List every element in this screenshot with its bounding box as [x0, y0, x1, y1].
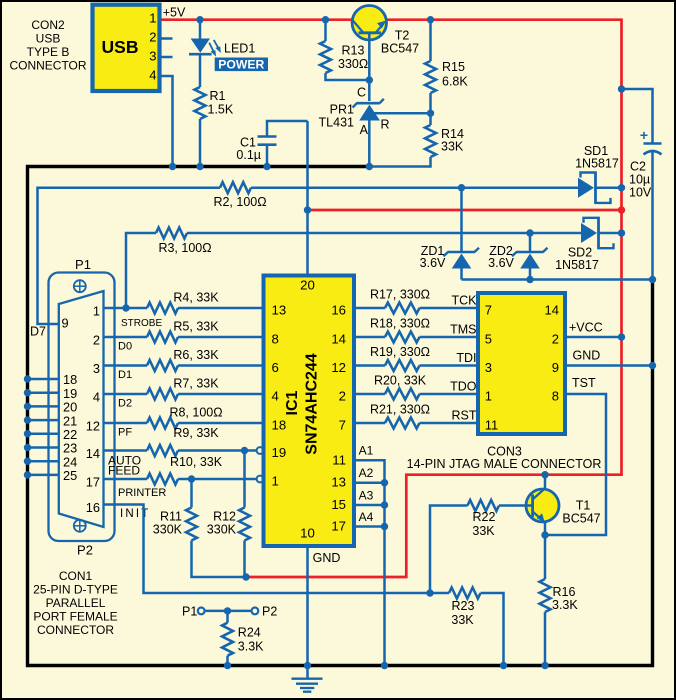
wire GND (CON3 pin9 to ground bus): [565, 364, 653, 367]
wire STROBE line (connector to resistor): [104, 307, 148, 310]
wire PF line (connector to resistor): [104, 422, 148, 425]
label R3 100Ω: [158, 241, 211, 255]
label INIT: [120, 508, 151, 520]
pin 14 number: [86, 446, 100, 461]
pin 18 number: [63, 372, 77, 387]
svg-text:STROBE: STROBE: [121, 318, 162, 329]
IC1 pin 13 number: [331, 475, 346, 490]
wire AUTO FEED line (resistor to IC1 pin 19): [178, 449, 257, 452]
svg-text:C: C: [357, 86, 366, 100]
svg-text:R21, 330Ω: R21, 330Ω: [370, 403, 430, 417]
wire VCC rail to C2: [622, 89, 653, 144]
svg-text:D2: D2: [118, 398, 132, 410]
CON3 pin 14 number: [545, 302, 559, 317]
wire PRINTER to R11: [190, 479, 193, 508]
svg-text:3: 3: [149, 48, 156, 63]
label D2: [118, 398, 132, 410]
label P1 (pad): [182, 605, 197, 619]
svg-text:3: 3: [485, 360, 492, 375]
svg-text:BC547: BC547: [381, 42, 419, 56]
wire node A2 (IC1 pin 13 to bus): [354, 481, 385, 484]
label SD1 1N5817: [575, 144, 619, 171]
svg-text:D1: D1: [118, 369, 132, 381]
junction SD2 cathode on VCC rail: [618, 229, 625, 236]
label R8, 100Ω: [169, 406, 222, 420]
label P1: [75, 257, 91, 272]
resistor R23: [449, 588, 481, 599]
svg-text:CONNECTOR: CONNECTOR: [9, 59, 86, 73]
wire R12 to pull-up rail: [243, 541, 246, 578]
svg-text:CON1: CON1: [59, 569, 93, 583]
label D1: [118, 369, 132, 381]
ground bus (black rail: top, left, bottom, right): [28, 167, 653, 666]
wire R21 to CON3 (RST): [420, 422, 479, 425]
svg-text:33K: 33K: [472, 524, 495, 538]
svg-text:R22: R22: [473, 510, 496, 524]
resistor R20: [385, 389, 420, 400]
label 14-PIN JTAG MALE CONNECTOR: [407, 457, 602, 471]
resistor R21: [385, 418, 420, 429]
resistor R22: [468, 500, 500, 511]
label P2 (pad): [262, 605, 277, 619]
wire R15 to junction: [429, 93, 432, 113]
svg-text:A1: A1: [359, 444, 374, 458]
label R19, 330Ω: [370, 345, 430, 359]
junction ZD2 ground: [526, 276, 533, 283]
junction R11/R12/VCC: [242, 573, 249, 580]
wire VCC mid rail to IC1 pin 20 node: [308, 209, 622, 212]
wire P1 pin 19 stub to ground: [28, 391, 59, 394]
svg-text:R18, 330Ω: R18, 330Ω: [370, 317, 430, 331]
svg-text:4: 4: [272, 389, 279, 404]
connector P1 inner D shell: [59, 291, 104, 527]
svg-text:6.8K: 6.8K: [442, 75, 468, 89]
resistor R19: [385, 360, 420, 371]
resistor R6: [147, 360, 178, 371]
svg-text:R: R: [381, 118, 390, 132]
LED LED1 symbol: [189, 39, 221, 57]
svg-text:R5, 33K: R5, 33K: [173, 320, 219, 334]
svg-text:13: 13: [272, 303, 287, 318]
wire T2 base down: [368, 33, 371, 101]
label CON2 USB TYPE B CONNECTOR: [9, 18, 86, 73]
junction R15/R14/ref: [427, 110, 434, 117]
wire R22 to INIT node: [430, 506, 468, 594]
shunt regulator PR1 TL431 symbol: [353, 99, 384, 121]
svg-text:POWER: POWER: [218, 58, 264, 72]
svg-text:3.3K: 3.3K: [552, 598, 578, 612]
pin 16 number: [86, 500, 100, 515]
wire PR1 ref to R15/R14 junction: [374, 112, 431, 115]
svg-text:R23: R23: [452, 599, 475, 613]
label TCK: [452, 294, 478, 308]
svg-text:C2: C2: [630, 160, 646, 174]
svg-text:R12: R12: [213, 510, 236, 524]
svg-text:FEED: FEED: [108, 464, 140, 478]
svg-text:10V: 10V: [629, 186, 652, 200]
wire C2 to ground: [651, 153, 654, 281]
pin 2 number: [93, 333, 100, 348]
svg-text:R17, 330Ω: R17, 330Ω: [370, 288, 430, 302]
label R5, 33K: [173, 320, 219, 334]
junction R3 tap on STROBE: [122, 304, 129, 311]
svg-text:1.5K: 1.5K: [208, 103, 234, 117]
svg-text:14: 14: [331, 332, 346, 347]
label STROBE: [121, 318, 162, 329]
label D0: [118, 341, 132, 353]
svg-text:2: 2: [93, 333, 100, 348]
USB connector CON2 box: [93, 5, 160, 91]
svg-text:USB: USB: [36, 32, 61, 46]
IC1 pin 14 number: [331, 332, 346, 347]
label R7, 33K: [173, 377, 219, 391]
svg-text:8: 8: [552, 388, 559, 403]
wire PR1 anode to ground: [368, 121, 371, 167]
junction R11 tap on PRINTER: [188, 475, 195, 482]
USB pin 1 number: [149, 11, 156, 26]
svg-text:6: 6: [272, 360, 279, 375]
svg-text:2: 2: [339, 389, 346, 404]
wire D0 line (connector to resistor): [104, 336, 148, 339]
resistor R10: [147, 474, 178, 485]
connector P1/P2 outer shell: [49, 273, 115, 542]
wire C1 top to VCC vertical: [267, 121, 308, 137]
pin 22 number: [63, 427, 77, 442]
label R10, 33K: [170, 455, 223, 469]
junction VCC vertical and red rail: [304, 206, 311, 213]
IC1 pin 19 number: [272, 445, 287, 460]
svg-text:+5V: +5V: [163, 6, 186, 20]
junction pin 24 ground: [24, 458, 31, 465]
svg-text:2: 2: [552, 331, 559, 346]
zener diode ZD1: [444, 188, 480, 280]
node P1 pad: [198, 608, 205, 615]
wire T1 collector to VCC: [544, 475, 547, 489]
svg-text:16: 16: [86, 500, 100, 515]
label A1: [359, 444, 374, 458]
svg-text:P1: P1: [75, 257, 91, 272]
pin 21 number: [63, 413, 77, 428]
wire AUTO FEED to R12: [243, 451, 246, 508]
IC1 pin 2 number: [339, 389, 346, 404]
svg-text:4: 4: [149, 68, 156, 83]
CON3 pin 2 number: [552, 331, 559, 346]
svg-text:R10, 33K: R10, 33K: [170, 455, 223, 469]
resistor R3: [156, 228, 187, 239]
IC1 pin 13 number: [272, 303, 287, 318]
pin 17 number: [86, 475, 100, 490]
svg-text:PARALLEL: PARALLEL: [46, 596, 106, 610]
wire D0 line (resistor to IC1): [178, 336, 264, 339]
junction R1 ground: [196, 163, 203, 170]
resistor R12: [239, 508, 250, 541]
IC1 pin 6 number: [272, 360, 279, 375]
junction pin 18 ground: [24, 375, 31, 382]
label R23 33K: [451, 599, 474, 627]
label +VCC: [569, 321, 603, 335]
resistor R16: [540, 579, 551, 612]
resistor R4: [147, 303, 178, 314]
IC1 pin 1 number: [272, 474, 279, 489]
svg-text:3: 3: [93, 361, 100, 376]
wire P1 pin 24 stub to ground: [28, 460, 59, 463]
IC1 pin 19 inverting bubble: [257, 447, 264, 454]
junction SD1 cathode on VCC rail: [618, 184, 625, 191]
junction USB pin4 ground: [169, 163, 176, 170]
svg-text:R6, 33K: R6, 33K: [173, 348, 219, 362]
label R1 1.5K: [208, 89, 234, 117]
svg-text:33K: 33K: [441, 140, 464, 154]
junction R16 ground: [541, 662, 548, 669]
svg-text:14-PIN JTAG MALE CONNECTOR: 14-PIN JTAG MALE CONNECTOR: [407, 457, 602, 471]
svg-text:T2: T2: [395, 29, 410, 43]
pin 20 number: [63, 400, 77, 415]
resistor R9: [147, 445, 178, 456]
label R22 33K: [472, 510, 495, 538]
wire INIT from P1 pin 16 down and right: [104, 505, 450, 594]
svg-text:CON2: CON2: [31, 18, 65, 32]
wire R13 to T2 base: [326, 73, 370, 80]
label R17, 330Ω: [370, 288, 430, 302]
svg-text:SN74AHC244: SN74AHC244: [304, 353, 321, 454]
svg-text:GND: GND: [313, 551, 341, 565]
svg-text:1: 1: [485, 388, 492, 403]
junction PR1 anode / ground / R14: [366, 163, 373, 170]
node P2 pad: [252, 608, 259, 615]
svg-text:18: 18: [272, 418, 287, 433]
svg-text:5: 5: [485, 331, 492, 346]
zener diode ZD2: [512, 233, 548, 280]
wire IC1 to R18: [354, 336, 385, 339]
junction +VCC on rail: [618, 333, 625, 340]
label T2 BC547: [381, 29, 419, 56]
svg-text:1: 1: [272, 474, 279, 489]
svg-text:14: 14: [545, 302, 559, 317]
junction R13 tap on +5V rail: [322, 16, 329, 23]
CON3 pin 5 number: [485, 331, 492, 346]
wire IC1 to R20: [354, 393, 385, 396]
wire VCC rail from T2 emitter to right, down right side, to bottom left: [246, 20, 622, 577]
label R9, 33K: [173, 426, 219, 440]
IC1 pin 12 number: [331, 360, 346, 375]
svg-text:4: 4: [93, 390, 100, 405]
IC1 pin 20 number: [300, 278, 315, 293]
label R11 330K: [153, 510, 183, 537]
label TDI: [456, 351, 476, 365]
label TDO: [450, 380, 477, 394]
svg-text:TL431: TL431: [319, 116, 354, 130]
svg-text:TDI: TDI: [456, 351, 476, 365]
wire IC1 to R21: [354, 422, 385, 425]
label TST: [572, 376, 596, 390]
svg-text:D7: D7: [30, 325, 46, 339]
label AUTO FEED: [108, 454, 141, 478]
svg-text:R24: R24: [238, 626, 261, 640]
wire junction to R14: [429, 113, 432, 125]
USB pin 2 number: [149, 30, 156, 45]
svg-text:13: 13: [331, 475, 346, 490]
svg-text:R8, 100Ω: R8, 100Ω: [169, 406, 222, 420]
resistor R1: [195, 87, 206, 119]
label R24 3.3K: [238, 626, 264, 654]
junction C2 tap on VCC rail: [618, 85, 625, 92]
wire R3 from STROBE line up: [126, 233, 156, 308]
wire P1 pin 21 stub to ground: [28, 419, 59, 422]
pin 24 number: [63, 454, 77, 469]
wire R23 to ground: [481, 593, 504, 666]
wire zener ground line: [462, 278, 653, 281]
svg-text:PORT FEMALE: PORT FEMALE: [33, 610, 117, 624]
wire IC1 to R19: [354, 364, 385, 367]
wire +5V to R13: [324, 20, 327, 41]
op-amp buffer IC1 SN74AHC244 box: [264, 276, 355, 547]
wire node A3 (IC1 pin 15 to bus): [354, 504, 385, 507]
IC1 pin 10 number: [300, 526, 315, 541]
junction A3 bus: [381, 501, 388, 508]
svg-text:IC1: IC1: [284, 390, 301, 415]
wire C1 bottom to ground: [266, 145, 269, 167]
schottky diode SD1: [578, 172, 622, 204]
pin 12 number: [86, 419, 100, 434]
svg-text:33K: 33K: [451, 613, 474, 627]
wire D1 line (resistor to IC1): [178, 364, 264, 367]
svg-text:R9, 33K: R9, 33K: [173, 426, 219, 440]
label R6, 33K: [173, 348, 219, 362]
svg-text:R2, 100Ω: R2, 100Ω: [213, 195, 266, 209]
svg-text:17: 17: [331, 519, 346, 534]
wire T1 emitter to TST node: [544, 522, 547, 536]
junction IC1 pin 10 ground: [304, 662, 311, 669]
junction T2 base / R13 / PR1: [366, 76, 373, 83]
svg-text:TDO: TDO: [450, 380, 477, 394]
wire +5V rail from USB pin1 to T2 collector: [160, 18, 353, 21]
IC1 pin 17 number: [331, 519, 346, 534]
svg-text:330K: 330K: [207, 523, 237, 537]
IC1 pin 1 inverting bubble: [257, 476, 264, 483]
label IC1: [284, 390, 301, 415]
wire IC1 pin 10 to ground: [306, 546, 309, 666]
svg-text:A: A: [360, 123, 369, 137]
label PRINTER: [118, 487, 166, 499]
svg-text:12: 12: [86, 419, 100, 434]
resistor R17: [385, 303, 420, 314]
wire +VCC (CON3 pin2 to VCC rail): [565, 336, 622, 339]
svg-text:+: +: [640, 127, 648, 143]
svg-text:12: 12: [331, 360, 346, 375]
junction A2 bus: [381, 479, 388, 486]
svg-text:10: 10: [300, 526, 315, 541]
wire USB pin 4 to ground: [160, 76, 173, 167]
svg-text:3.3K: 3.3K: [238, 639, 264, 653]
ground symbol: [292, 666, 323, 692]
label T1 BC547: [562, 499, 600, 526]
junction T1 collector on VCC: [541, 471, 548, 478]
svg-text:P2: P2: [262, 605, 277, 619]
wire VCC vertical to IC1 pin 20: [306, 121, 309, 276]
junction T1 emitter/TST/R16: [541, 531, 548, 538]
svg-text:3.6V: 3.6V: [420, 256, 446, 270]
svg-text:RST: RST: [452, 409, 477, 423]
USB pin 4 number: [149, 68, 156, 83]
svg-text:CONNECTOR: CONNECTOR: [37, 623, 114, 637]
wire R2 to SD1 anode: [251, 186, 578, 189]
svg-text:2: 2: [149, 30, 156, 45]
svg-text:TST: TST: [572, 376, 596, 390]
label +5V: [163, 6, 186, 20]
svg-text:A2: A2: [359, 466, 374, 480]
label GND: [573, 349, 601, 363]
junction R24 tap on jumper: [224, 607, 231, 614]
label C1 0.1µ: [236, 136, 261, 163]
wire R3 to SD2 anode: [187, 232, 581, 235]
IC1 pin 8 number: [272, 332, 279, 347]
wire USB pin 2 stub: [160, 37, 173, 40]
label GND under IC1: [313, 551, 341, 565]
svg-text:15: 15: [331, 497, 346, 512]
svg-text:R19, 330Ω: R19, 330Ω: [370, 345, 430, 359]
wire T1 emitter to R16: [544, 535, 547, 579]
label C2 10µ 10V: [629, 160, 652, 200]
wire R20 to CON3 (TDO): [420, 393, 479, 396]
svg-text:1N5817: 1N5817: [555, 258, 599, 272]
wire A bus to ground: [383, 483, 386, 666]
wire jumper to R24: [226, 611, 229, 623]
wire P1 pin 23 stub to ground: [28, 446, 59, 449]
svg-text:+VCC: +VCC: [569, 321, 603, 335]
label R2 100Ω: [213, 195, 266, 209]
svg-text:9: 9: [62, 315, 69, 330]
junction zener line / C2 / ground bus: [649, 276, 656, 283]
IC1 pin 7 number: [339, 418, 346, 433]
svg-text:8: 8: [272, 332, 279, 347]
junction ZD2 tap: [526, 229, 533, 236]
svg-text:TYPE B: TYPE B: [27, 45, 70, 59]
connector mounting hole top: [74, 280, 86, 292]
svg-text:19: 19: [272, 445, 287, 460]
label TMS: [450, 323, 476, 337]
label LED1: [224, 42, 255, 56]
label R16 3.3K: [552, 585, 578, 612]
label ZD1 3.6V: [420, 244, 446, 270]
label R14 33K: [441, 127, 464, 154]
wire R17 to CON3 (TCK): [420, 307, 479, 310]
pin 25 number: [63, 468, 77, 483]
label SN74AHC244: [304, 353, 321, 454]
wire USB pin 3 stub: [160, 56, 173, 59]
label P2: [77, 543, 93, 558]
svg-text:0.1µ: 0.1µ: [236, 148, 261, 162]
pin 23 number: [63, 441, 77, 456]
wire R18 to CON3 (TMS): [420, 336, 479, 339]
wire D2 line (connector to resistor): [104, 393, 148, 396]
junction pin 19 ground: [24, 389, 31, 396]
CON3 pin 11 number: [485, 417, 499, 432]
label CON1 25-PIN D-TYPE PARALLEL PORT FEMALE CONNECTOR: [33, 569, 118, 637]
junction pin 21 ground: [24, 416, 31, 423]
svg-text:A4: A4: [359, 510, 374, 524]
junction C1 ground: [263, 163, 270, 170]
label R15 6.8K: [442, 60, 468, 89]
resistor R13: [320, 41, 331, 73]
svg-text:11: 11: [485, 417, 499, 432]
svg-text:9: 9: [552, 360, 559, 375]
resistor R24: [222, 623, 233, 656]
wire red rail to LED1 anode: [199, 20, 202, 39]
wire +rail to R15: [429, 20, 432, 61]
junction R23 ground: [500, 662, 507, 669]
svg-text:R11: R11: [160, 510, 182, 524]
CON3 pin 3 number: [485, 360, 492, 375]
